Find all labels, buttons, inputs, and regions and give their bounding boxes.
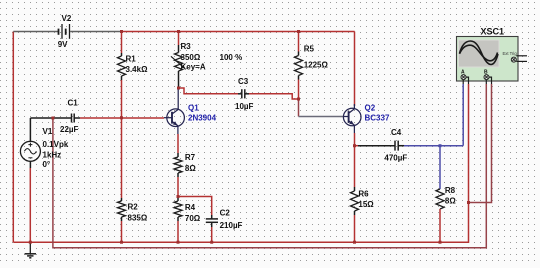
svg-text:A: A xyxy=(461,70,465,76)
svg-text:70Ω: 70Ω xyxy=(185,214,201,223)
svg-text:Q2: Q2 xyxy=(365,104,376,113)
svg-text:C4: C4 xyxy=(391,128,402,137)
svg-text:0°: 0° xyxy=(43,160,51,169)
svg-text:1kHz: 1kHz xyxy=(43,151,62,160)
svg-text:22µF: 22µF xyxy=(60,125,79,134)
svg-text:R8: R8 xyxy=(445,186,456,195)
svg-text:C2: C2 xyxy=(220,209,231,218)
svg-text:V1: V1 xyxy=(43,127,53,136)
svg-text:V2: V2 xyxy=(62,14,72,23)
svg-text:BC337: BC337 xyxy=(365,114,390,123)
svg-text:Key=A: Key=A xyxy=(181,63,206,72)
svg-text:100 %: 100 % xyxy=(220,53,243,62)
svg-text:R7: R7 xyxy=(185,153,196,162)
svg-text:15Ω: 15Ω xyxy=(358,200,374,209)
svg-text:R2: R2 xyxy=(128,203,139,212)
svg-text:Ext Trig: Ext Trig xyxy=(503,51,518,56)
svg-text:350Ω: 350Ω xyxy=(181,53,201,62)
svg-text:R4: R4 xyxy=(185,203,196,212)
svg-text:210µF: 210µF xyxy=(220,221,243,230)
svg-text:3.4kΩ: 3.4kΩ xyxy=(126,65,149,74)
svg-text:1225Ω: 1225Ω xyxy=(304,61,329,70)
svg-text:0.1Vpk: 0.1Vpk xyxy=(43,140,69,149)
svg-text:10µF: 10µF xyxy=(235,102,254,111)
svg-text:8Ω: 8Ω xyxy=(185,164,196,173)
svg-text:835Ω: 835Ω xyxy=(128,214,148,223)
svg-text:XSC1: XSC1 xyxy=(481,27,505,37)
svg-text:470µF: 470µF xyxy=(384,154,407,163)
svg-text:2N3904: 2N3904 xyxy=(188,114,217,123)
svg-text:R5: R5 xyxy=(304,45,315,54)
svg-text:R3: R3 xyxy=(181,42,192,51)
svg-text:C3: C3 xyxy=(238,77,249,86)
svg-text:8Ω: 8Ω xyxy=(445,197,456,206)
svg-text:C1: C1 xyxy=(68,99,79,108)
svg-text:Q1: Q1 xyxy=(188,104,199,113)
svg-text:9V: 9V xyxy=(58,40,68,49)
svg-text:R1: R1 xyxy=(126,55,137,64)
svg-text:B: B xyxy=(484,70,488,76)
svg-text:R6: R6 xyxy=(358,190,369,199)
